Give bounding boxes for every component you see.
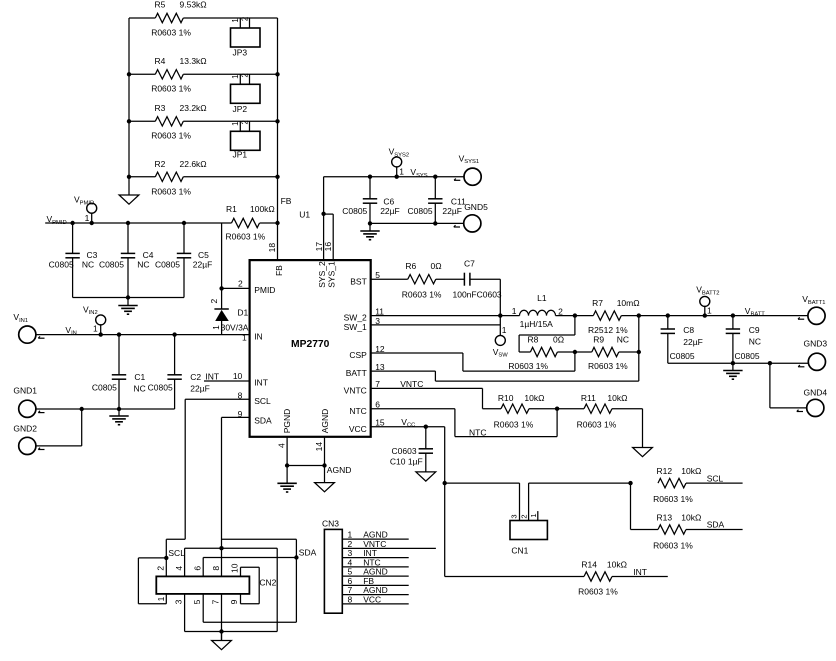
- svg-text:C0805: C0805: [670, 351, 695, 361]
- svg-text:1: 1: [85, 213, 90, 223]
- svg-text:0Ω: 0Ω: [431, 261, 442, 271]
- svg-text:15: 15: [375, 418, 385, 428]
- svg-text:2: 2: [238, 279, 243, 289]
- svg-text:R0603 1%: R0603 1%: [151, 28, 191, 38]
- svg-text:CSP: CSP: [349, 350, 367, 360]
- svg-text:NTC: NTC: [349, 406, 366, 416]
- svg-text:C1: C1: [134, 372, 145, 382]
- svg-text:30V/3A: 30V/3A: [221, 322, 249, 332]
- svg-text:5: 5: [375, 270, 380, 280]
- svg-text:22µF: 22µF: [380, 206, 400, 216]
- svg-text:10: 10: [230, 563, 240, 573]
- svg-text:VCC: VCC: [363, 594, 381, 604]
- svg-text:NC: NC: [617, 335, 629, 345]
- svg-text:0Ω: 0Ω: [553, 335, 564, 345]
- svg-text:R8: R8: [528, 335, 539, 345]
- svg-text:1: 1: [231, 18, 240, 22]
- svg-text:2: 2: [241, 73, 250, 77]
- svg-text:C0805: C0805: [99, 259, 124, 269]
- svg-text:GND2: GND2: [13, 424, 37, 434]
- svg-text:GND4: GND4: [804, 388, 828, 398]
- svg-text:100nFC0603: 100nFC0603: [453, 289, 502, 299]
- svg-text:R0603 1%: R0603 1%: [577, 419, 617, 429]
- svg-text:7: 7: [375, 379, 380, 389]
- svg-text:CN1: CN1: [511, 546, 528, 556]
- svg-text:9.53kΩ: 9.53kΩ: [180, 0, 207, 10]
- svg-text:2: 2: [156, 566, 166, 571]
- svg-text:INT: INT: [205, 371, 219, 381]
- svg-text:VCC: VCC: [349, 424, 367, 434]
- svg-text:R9: R9: [593, 335, 604, 345]
- svg-text:12: 12: [375, 344, 385, 354]
- svg-text:R0603 1%: R0603 1%: [653, 541, 693, 551]
- svg-text:C10 1µF: C10 1µF: [390, 457, 423, 467]
- svg-text:GND1: GND1: [13, 386, 37, 396]
- svg-text:1: 1: [399, 166, 404, 176]
- svg-text:MP2770: MP2770: [291, 339, 330, 350]
- svg-text:C7: C7: [464, 258, 475, 268]
- svg-text:C0603: C0603: [392, 446, 417, 456]
- svg-text:6: 6: [193, 566, 203, 571]
- svg-text:VNTC: VNTC: [344, 386, 367, 396]
- svg-text:SDA: SDA: [254, 415, 272, 425]
- svg-text:3: 3: [174, 599, 184, 604]
- svg-text:R0603 1%: R0603 1%: [151, 131, 191, 141]
- svg-text:8: 8: [211, 566, 221, 571]
- svg-text:SDA: SDA: [299, 548, 317, 558]
- svg-text:1: 1: [707, 305, 712, 315]
- svg-text:R0603 1%: R0603 1%: [151, 83, 191, 93]
- svg-text:11: 11: [375, 306, 384, 316]
- svg-text:2: 2: [519, 514, 528, 518]
- svg-text:AGND: AGND: [320, 409, 330, 434]
- svg-text:PGND: PGND: [282, 409, 292, 434]
- svg-text:7: 7: [211, 599, 221, 604]
- svg-text:1: 1: [231, 75, 240, 79]
- svg-text:R0603 1%: R0603 1%: [578, 587, 618, 597]
- svg-text:8: 8: [348, 594, 353, 604]
- svg-text:14: 14: [314, 442, 324, 452]
- svg-text:BATT: BATT: [346, 368, 367, 378]
- svg-text:SCL: SCL: [168, 548, 185, 558]
- svg-text:13: 13: [375, 362, 385, 372]
- svg-text:JP3: JP3: [233, 48, 248, 58]
- svg-text:C0805: C0805: [148, 382, 173, 392]
- svg-text:22.6kΩ: 22.6kΩ: [180, 159, 207, 169]
- svg-text:R2512 1%: R2512 1%: [588, 325, 628, 335]
- svg-text:R11: R11: [581, 393, 596, 403]
- svg-text:C0805: C0805: [49, 259, 74, 269]
- svg-text:VNTC: VNTC: [400, 379, 423, 389]
- svg-text:IN: IN: [254, 331, 263, 341]
- svg-text:16: 16: [323, 242, 333, 252]
- svg-text:23.2kΩ: 23.2kΩ: [180, 103, 207, 113]
- svg-text:INT: INT: [254, 377, 268, 387]
- svg-text:C0805: C0805: [92, 382, 117, 392]
- svg-text:R7: R7: [592, 298, 603, 308]
- svg-text:R0603 1%: R0603 1%: [402, 289, 442, 299]
- svg-text:NTC: NTC: [469, 427, 486, 437]
- svg-text:10kΩ: 10kΩ: [681, 466, 701, 476]
- svg-text:1: 1: [502, 325, 507, 335]
- svg-text:1: 1: [156, 596, 166, 601]
- svg-text:NC: NC: [82, 259, 94, 269]
- svg-text:R13: R13: [657, 513, 673, 523]
- svg-text:22µF: 22µF: [193, 259, 213, 269]
- svg-text:10mΩ: 10mΩ: [617, 298, 640, 308]
- svg-text:1µH/15A: 1µH/15A: [520, 319, 554, 329]
- svg-text:R14: R14: [581, 559, 597, 569]
- svg-text:SW_1: SW_1: [344, 322, 367, 332]
- svg-text:2: 2: [209, 299, 219, 304]
- svg-text:9: 9: [229, 599, 239, 604]
- svg-text:1: 1: [231, 122, 240, 126]
- svg-text:R2: R2: [155, 159, 166, 169]
- svg-text:BST: BST: [350, 277, 367, 287]
- svg-text:R12: R12: [657, 466, 673, 476]
- svg-text:NC: NC: [749, 337, 761, 347]
- svg-text:2: 2: [241, 17, 250, 21]
- svg-text:2: 2: [241, 120, 250, 124]
- svg-text:AGND: AGND: [327, 465, 352, 475]
- svg-text:R0603 1%: R0603 1%: [508, 361, 548, 371]
- svg-text:C8: C8: [683, 325, 694, 335]
- svg-text:R0603 1%: R0603 1%: [494, 419, 534, 429]
- svg-text:SYS_1: SYS_1: [327, 261, 337, 288]
- svg-text:R1: R1: [226, 204, 237, 214]
- svg-text:U1: U1: [299, 210, 310, 220]
- svg-text:10: 10: [233, 371, 243, 381]
- svg-text:6: 6: [375, 400, 380, 410]
- svg-text:3: 3: [510, 514, 519, 518]
- svg-text:22µF: 22µF: [442, 206, 462, 216]
- svg-text:JP2: JP2: [233, 104, 248, 114]
- svg-text:INT: INT: [633, 567, 647, 577]
- svg-text:10kΩ: 10kΩ: [681, 513, 701, 523]
- svg-text:R0603 1%: R0603 1%: [226, 231, 266, 241]
- svg-text:R5: R5: [155, 0, 166, 10]
- svg-text:SW_2: SW_2: [344, 312, 367, 322]
- svg-text:FB: FB: [274, 265, 284, 276]
- svg-text:NC: NC: [134, 384, 146, 394]
- svg-text:C0805: C0805: [342, 206, 367, 216]
- svg-text:1: 1: [512, 306, 517, 316]
- svg-text:CN2: CN2: [259, 577, 276, 587]
- svg-text:C0805: C0805: [155, 259, 180, 269]
- svg-text:100kΩ: 100kΩ: [250, 204, 275, 214]
- svg-text:L1: L1: [537, 293, 547, 303]
- svg-text:R3: R3: [155, 103, 166, 113]
- svg-text:PMID: PMID: [254, 285, 275, 295]
- svg-text:1: 1: [93, 324, 98, 334]
- svg-text:10kΩ: 10kΩ: [607, 393, 627, 403]
- svg-text:GND3: GND3: [804, 339, 828, 349]
- svg-text:CN3: CN3: [322, 518, 339, 528]
- svg-text:2: 2: [558, 307, 563, 317]
- svg-text:4: 4: [174, 566, 184, 571]
- svg-text:R4: R4: [155, 56, 166, 66]
- svg-text:R0603 1%: R0603 1%: [653, 494, 693, 504]
- svg-text:C9: C9: [749, 325, 760, 335]
- svg-text:R10: R10: [498, 393, 514, 403]
- svg-text:D1: D1: [237, 308, 248, 318]
- svg-text:22µF: 22µF: [190, 384, 210, 394]
- svg-text:13.3kΩ: 13.3kΩ: [180, 56, 207, 66]
- svg-text:FB: FB: [281, 196, 292, 206]
- svg-text:10kΩ: 10kΩ: [607, 559, 627, 569]
- svg-text:5: 5: [192, 599, 202, 604]
- svg-text:C2: C2: [190, 372, 201, 382]
- svg-text:22µF: 22µF: [683, 337, 703, 347]
- svg-text:1: 1: [529, 513, 538, 517]
- svg-text:10kΩ: 10kΩ: [524, 393, 544, 403]
- svg-text:JP1: JP1: [233, 149, 248, 159]
- svg-text:18: 18: [267, 243, 277, 253]
- svg-text:C0805: C0805: [735, 351, 760, 361]
- svg-text:C0805: C0805: [408, 206, 433, 216]
- svg-text:R6: R6: [405, 261, 416, 271]
- svg-text:4: 4: [276, 443, 286, 448]
- svg-text:SYS_2: SYS_2: [317, 261, 327, 288]
- svg-text:SDA: SDA: [707, 520, 725, 530]
- svg-text:NC: NC: [137, 259, 149, 269]
- svg-text:SCL: SCL: [707, 473, 724, 483]
- svg-text:GND5: GND5: [464, 202, 488, 212]
- svg-text:SCL: SCL: [254, 396, 271, 406]
- svg-text:R0603 1%: R0603 1%: [588, 361, 628, 371]
- svg-text:R0603 1%: R0603 1%: [151, 186, 191, 196]
